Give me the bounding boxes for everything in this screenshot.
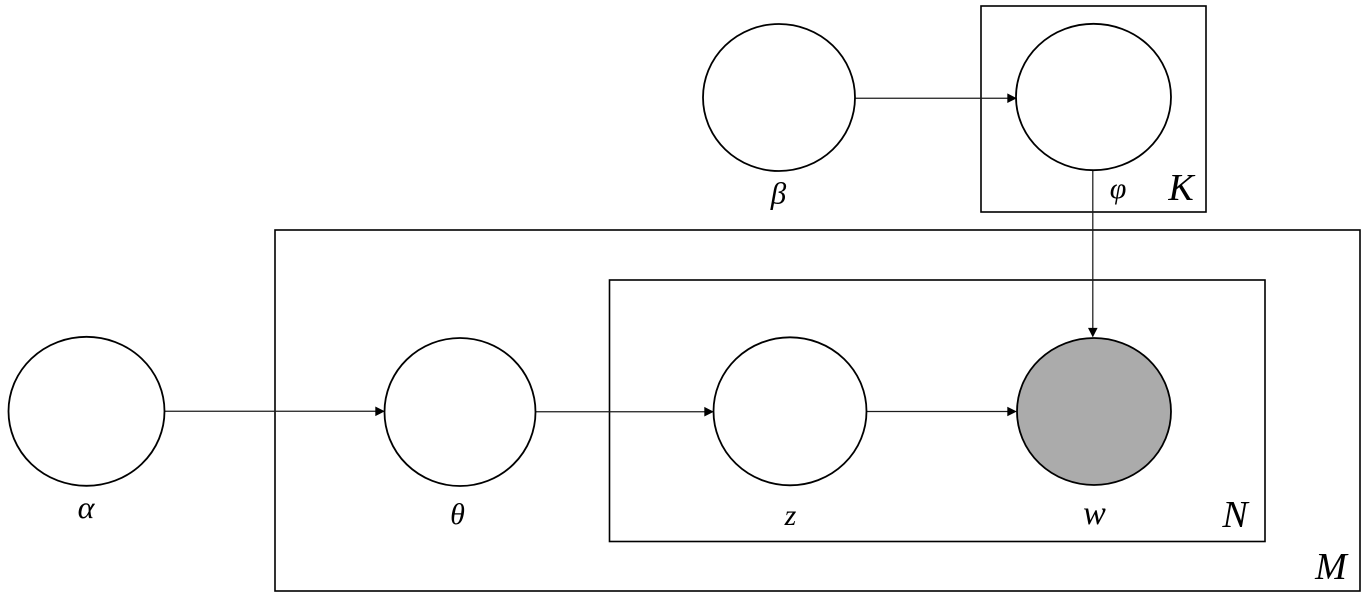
svg-text:M: M [1314,546,1349,588]
svg-text:N: N [1221,494,1250,536]
svg-text:φ: φ [1110,172,1127,205]
svg-text:β: β [770,176,787,211]
svg-text:θ: θ [450,498,465,531]
svg-text:w: w [1083,495,1106,532]
svg-text:K: K [1167,167,1195,209]
svg-text:z: z [784,499,797,532]
svg-text:α: α [78,489,96,525]
